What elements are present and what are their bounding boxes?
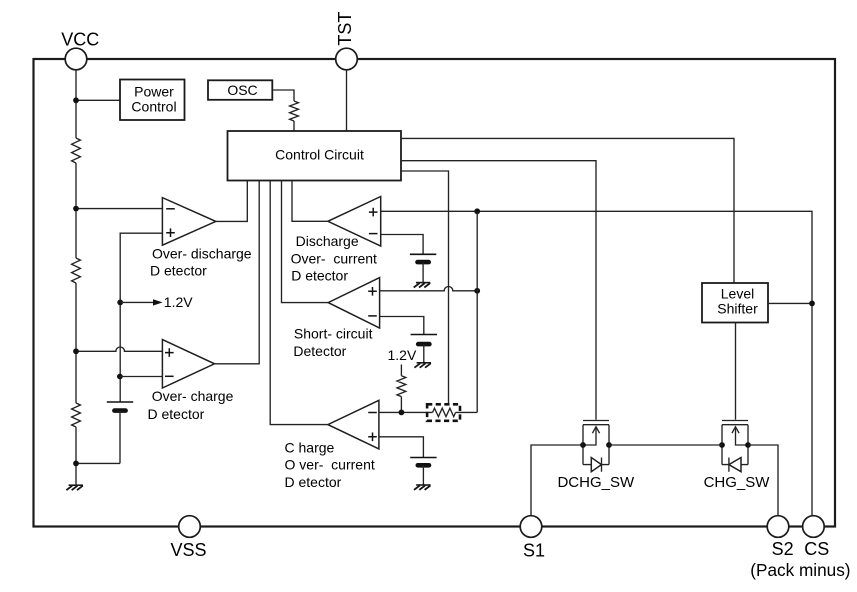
pin minus sign charge OC xyxy=(368,412,377,414)
wire to Power Control xyxy=(76,99,120,101)
wire OSC to control circuit xyxy=(272,90,294,101)
svg-text:Shifter: Shifter xyxy=(717,301,758,317)
svg-text:OSC: OSC xyxy=(227,82,257,98)
wire CHG_SW to S2 xyxy=(748,445,778,516)
svg-text:VCC: VCC xyxy=(61,29,99,49)
battery reference B1 xyxy=(107,401,133,403)
wire VCC rail segment 2 xyxy=(75,163,77,258)
node CS sense junction xyxy=(474,208,480,214)
svg-text:Over- charge: Over- charge xyxy=(152,388,234,404)
pin S1 xyxy=(520,516,542,538)
pin TST xyxy=(336,48,358,70)
transistor CHG_SW gate bar xyxy=(722,420,748,422)
op-amp short-circuit detector xyxy=(328,278,379,329)
transistor CHG_SW channel bar xyxy=(722,424,748,426)
transistor CHG_SW drain leg xyxy=(721,425,723,465)
svg-text:D etector: D etector xyxy=(285,474,342,490)
wire over-charge minus input xyxy=(120,376,162,378)
wire VCC rail segment 3 xyxy=(75,283,77,403)
wire over-discharge output xyxy=(216,181,248,222)
pin minus sign short-circuit xyxy=(368,315,377,317)
svg-text:DCHG_SW: DCHG_SW xyxy=(557,474,635,491)
wire battery B1 return xyxy=(119,411,121,464)
pin plus sign short-circuit xyxy=(368,287,377,296)
wire battery B2 to ground xyxy=(422,262,424,283)
transistor CHG_SW body arrow xyxy=(732,427,739,433)
pin VSS xyxy=(179,516,201,538)
wire discharge OC minus to reference xyxy=(381,235,423,255)
pin S2 xyxy=(767,516,789,538)
transistor DCHG_SW source leg xyxy=(582,425,584,465)
transistor CHG_SW body connection xyxy=(736,428,749,445)
wire VCC rail to ground xyxy=(75,427,77,485)
svg-text:Level: Level xyxy=(721,285,754,301)
arrowhead 1.2V xyxy=(153,299,163,305)
pin VCC xyxy=(65,48,87,70)
IC outline box xyxy=(34,59,836,527)
svg-text:Over- current: Over- current xyxy=(291,250,377,266)
node CHG_SW source xyxy=(745,442,751,448)
wire over-discharge minus input xyxy=(76,208,162,210)
node rail bottom junction xyxy=(73,461,79,467)
node DCHG_SW drain xyxy=(606,442,612,448)
svg-text:CS: CS xyxy=(804,539,829,559)
wire DCHG_SW to CHG_SW xyxy=(609,444,722,446)
wire level shifter output to CS line xyxy=(768,302,812,304)
svg-text:TST: TST xyxy=(335,12,355,46)
svg-text:S1: S1 xyxy=(523,540,545,560)
node CHG_SW drain xyxy=(719,442,725,448)
pin plus sign charge OC xyxy=(368,433,377,442)
dashed box 0V charge test resistor xyxy=(427,404,460,421)
op-amp over-discharge detector xyxy=(162,198,215,246)
pin plus sign discharge OC xyxy=(369,208,378,217)
resistor test (inside dashed box) xyxy=(433,408,456,416)
transistor DCHG_SW body arrow xyxy=(592,427,599,433)
resistor 1.2V reference xyxy=(397,376,406,397)
pin minus sign over-discharge xyxy=(166,208,175,210)
pin plus sign over-charge xyxy=(165,348,174,357)
node over-discharge tap xyxy=(73,206,79,212)
wire control to level shifter xyxy=(401,138,734,283)
wire over-charge plus input with hop xyxy=(76,347,162,351)
wire battery B4 to ground xyxy=(422,465,424,485)
svg-text:Discharge: Discharge xyxy=(296,233,359,249)
wire 1.2V to resistor xyxy=(400,365,402,376)
node level shifter / CS junction xyxy=(809,301,815,307)
op-amp discharge over-current detector xyxy=(328,197,381,247)
wire CS sense vertical branch xyxy=(476,211,478,412)
svg-text:D etector: D etector xyxy=(291,267,348,283)
transistor DCHG_SW gate bar xyxy=(583,420,609,422)
svg-text:D etector: D etector xyxy=(150,262,207,278)
transistor DCHG_SW body connection xyxy=(583,428,596,445)
block Power Control xyxy=(120,80,185,121)
block Control Circuit xyxy=(228,131,402,181)
resistor OSC line xyxy=(290,101,299,121)
svg-text:Detector: Detector xyxy=(293,343,346,359)
wire short-circuit minus to reference xyxy=(380,317,424,335)
wire TST to control circuit xyxy=(346,70,348,131)
svg-text:CHG_SW: CHG_SW xyxy=(704,474,771,491)
wire resistor to charge OC minus xyxy=(400,397,402,413)
svg-text:S2: S2 xyxy=(772,539,794,559)
wire discharge OC output xyxy=(292,181,328,222)
node over-charge minus tap xyxy=(117,374,123,380)
wire over-discharge plus input / reference rail xyxy=(120,233,162,402)
node DCHG_SW source xyxy=(580,442,586,448)
op-amp charge over-current detector xyxy=(328,400,379,449)
node 1.2V tap xyxy=(117,300,123,306)
svg-text:1.2V: 1.2V xyxy=(164,294,193,310)
wire short-circuit plus with hop xyxy=(380,286,478,290)
block Level Shifter xyxy=(702,283,768,323)
wire resistor to control circuit xyxy=(293,121,295,131)
svg-text:Short- circuit: Short- circuit xyxy=(294,326,373,342)
block OSC xyxy=(208,80,272,100)
transistor DCHG_SW channel bar xyxy=(583,424,609,426)
wire charge OC plus to reference xyxy=(379,437,424,458)
wire charge OC minus node xyxy=(379,411,477,413)
node over-charge tap xyxy=(73,348,79,354)
battery reference B4 xyxy=(410,457,436,459)
resistor divider R bottom xyxy=(72,403,81,427)
pin minus sign discharge OC xyxy=(369,233,378,235)
diode CHG_SW body diode xyxy=(722,458,748,472)
ground reference B3 xyxy=(417,362,431,364)
wire S1 to DCHG_SW xyxy=(531,445,583,516)
transistor CHG_SW source leg xyxy=(747,425,749,465)
svg-text:1.2V: 1.2V xyxy=(388,347,417,363)
pin CS xyxy=(803,516,825,538)
ground reference B2 xyxy=(416,282,430,284)
svg-text:Control: Control xyxy=(131,99,176,115)
pin minus sign over-charge xyxy=(165,375,174,377)
svg-text:(Pack minus): (Pack minus) xyxy=(750,560,850,580)
svg-text:Over- discharge: Over- discharge xyxy=(152,246,252,262)
svg-text:Control Circuit: Control Circuit xyxy=(275,147,364,163)
battery reference B3 xyxy=(411,334,437,336)
svg-text:O ver- current: O ver- current xyxy=(285,457,375,473)
ground rail bottom xyxy=(69,484,83,486)
wire discharge OC plus / CS sense line xyxy=(381,211,812,516)
battery reference B2 xyxy=(410,253,436,255)
svg-text:D etector: D etector xyxy=(148,406,205,422)
wire VCC rail top segment xyxy=(75,70,77,138)
node short-circuit plus junction xyxy=(474,288,480,294)
wire charge OC output xyxy=(270,181,328,425)
node VCC/PowerControl junction xyxy=(73,97,79,103)
wire level shifter to CHG gate xyxy=(735,323,737,420)
node charge OC minus junction xyxy=(399,410,405,416)
wire control to test resistor xyxy=(401,171,449,404)
wire 1.2V pointer xyxy=(120,301,153,303)
svg-text:Power: Power xyxy=(134,83,174,99)
resistor divider R middle xyxy=(72,258,81,283)
resistor divider R top xyxy=(72,138,81,163)
svg-text:C harge: C harge xyxy=(285,439,335,455)
transistor DCHG_SW drain leg xyxy=(608,425,610,465)
svg-text:VSS: VSS xyxy=(170,540,206,560)
pin plus sign over-discharge xyxy=(166,228,175,237)
wire battery B3 to ground xyxy=(423,344,425,363)
wire rail to battery return xyxy=(76,462,120,464)
wire short-circuit output xyxy=(282,181,329,303)
wire over-charge output xyxy=(215,181,260,364)
op-amp over-charge detector xyxy=(162,340,214,388)
wire control to DCHG gate xyxy=(401,161,596,420)
ground reference B4 xyxy=(416,484,430,486)
diode DCHG_SW body diode xyxy=(583,458,609,472)
